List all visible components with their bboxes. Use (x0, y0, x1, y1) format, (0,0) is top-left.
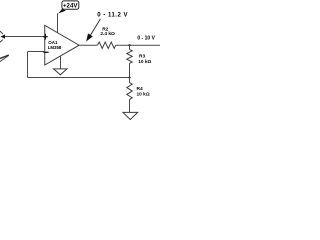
wire: V+ pin (57, 13, 59, 33)
svg-text:0 - 10 V: 0 - 10 V (137, 36, 155, 42)
svg-text:10 kΩ: 10 kΩ (138, 59, 151, 65)
wire: input to op-amp + input (5, 36, 45, 38)
callout arrowhead (86, 33, 93, 41)
callout line 0 - 11.2 V (90, 19, 101, 36)
wire: V- pin (60, 56, 62, 69)
resistor R4 (127, 83, 132, 100)
+24V supply box (62, 1, 79, 9)
svg-text:R4: R4 (137, 86, 143, 92)
op-amp - input sign (43, 51, 48, 53)
wire: R3 to junction (129, 63, 131, 77)
wire: feedback vertical (27, 52, 29, 78)
svg-text:+24V: +24V (63, 2, 78, 9)
svg-text:10 kΩ: 10 kΩ (137, 92, 150, 98)
wire: op-amp output to R2 (79, 44, 97, 46)
input filled arrowhead (1, 35, 6, 39)
svg-text:2.4 kΩ: 2.4 kΩ (100, 31, 115, 37)
svg-text:0 - 11.2 V: 0 - 11.2 V (97, 12, 128, 18)
resistor R2 (97, 42, 115, 48)
op-amp + input sign (43, 36, 48, 38)
svg-text:R3: R3 (139, 53, 145, 59)
wire: feedback horizontal bottom (28, 77, 130, 79)
input open-arrow tail tick (lower) (0, 40, 3, 43)
wire: R2 to output rail right edge (116, 44, 160, 46)
+24V supply box tail (58, 9, 66, 14)
wire: feedback to - input (28, 51, 45, 53)
input open-arrow tail tick (upper) (0, 31, 3, 34)
wire: junction to R4 (129, 78, 131, 83)
svg-text:LM358: LM358 (48, 45, 62, 50)
node: R3/R4 feedback junction (128, 76, 130, 78)
wire: junction to R3 (129, 45, 131, 49)
wire: R4 to ground (129, 99, 131, 112)
ground (R4) (123, 112, 138, 119)
op-amp OA1 triangle (45, 25, 79, 65)
resistor R3 (127, 49, 132, 63)
cut-off wiper arrow symbol (lower left) (0, 55, 9, 59)
node: R2/R3 junction (128, 44, 130, 46)
ground (op-amp) (54, 69, 67, 75)
